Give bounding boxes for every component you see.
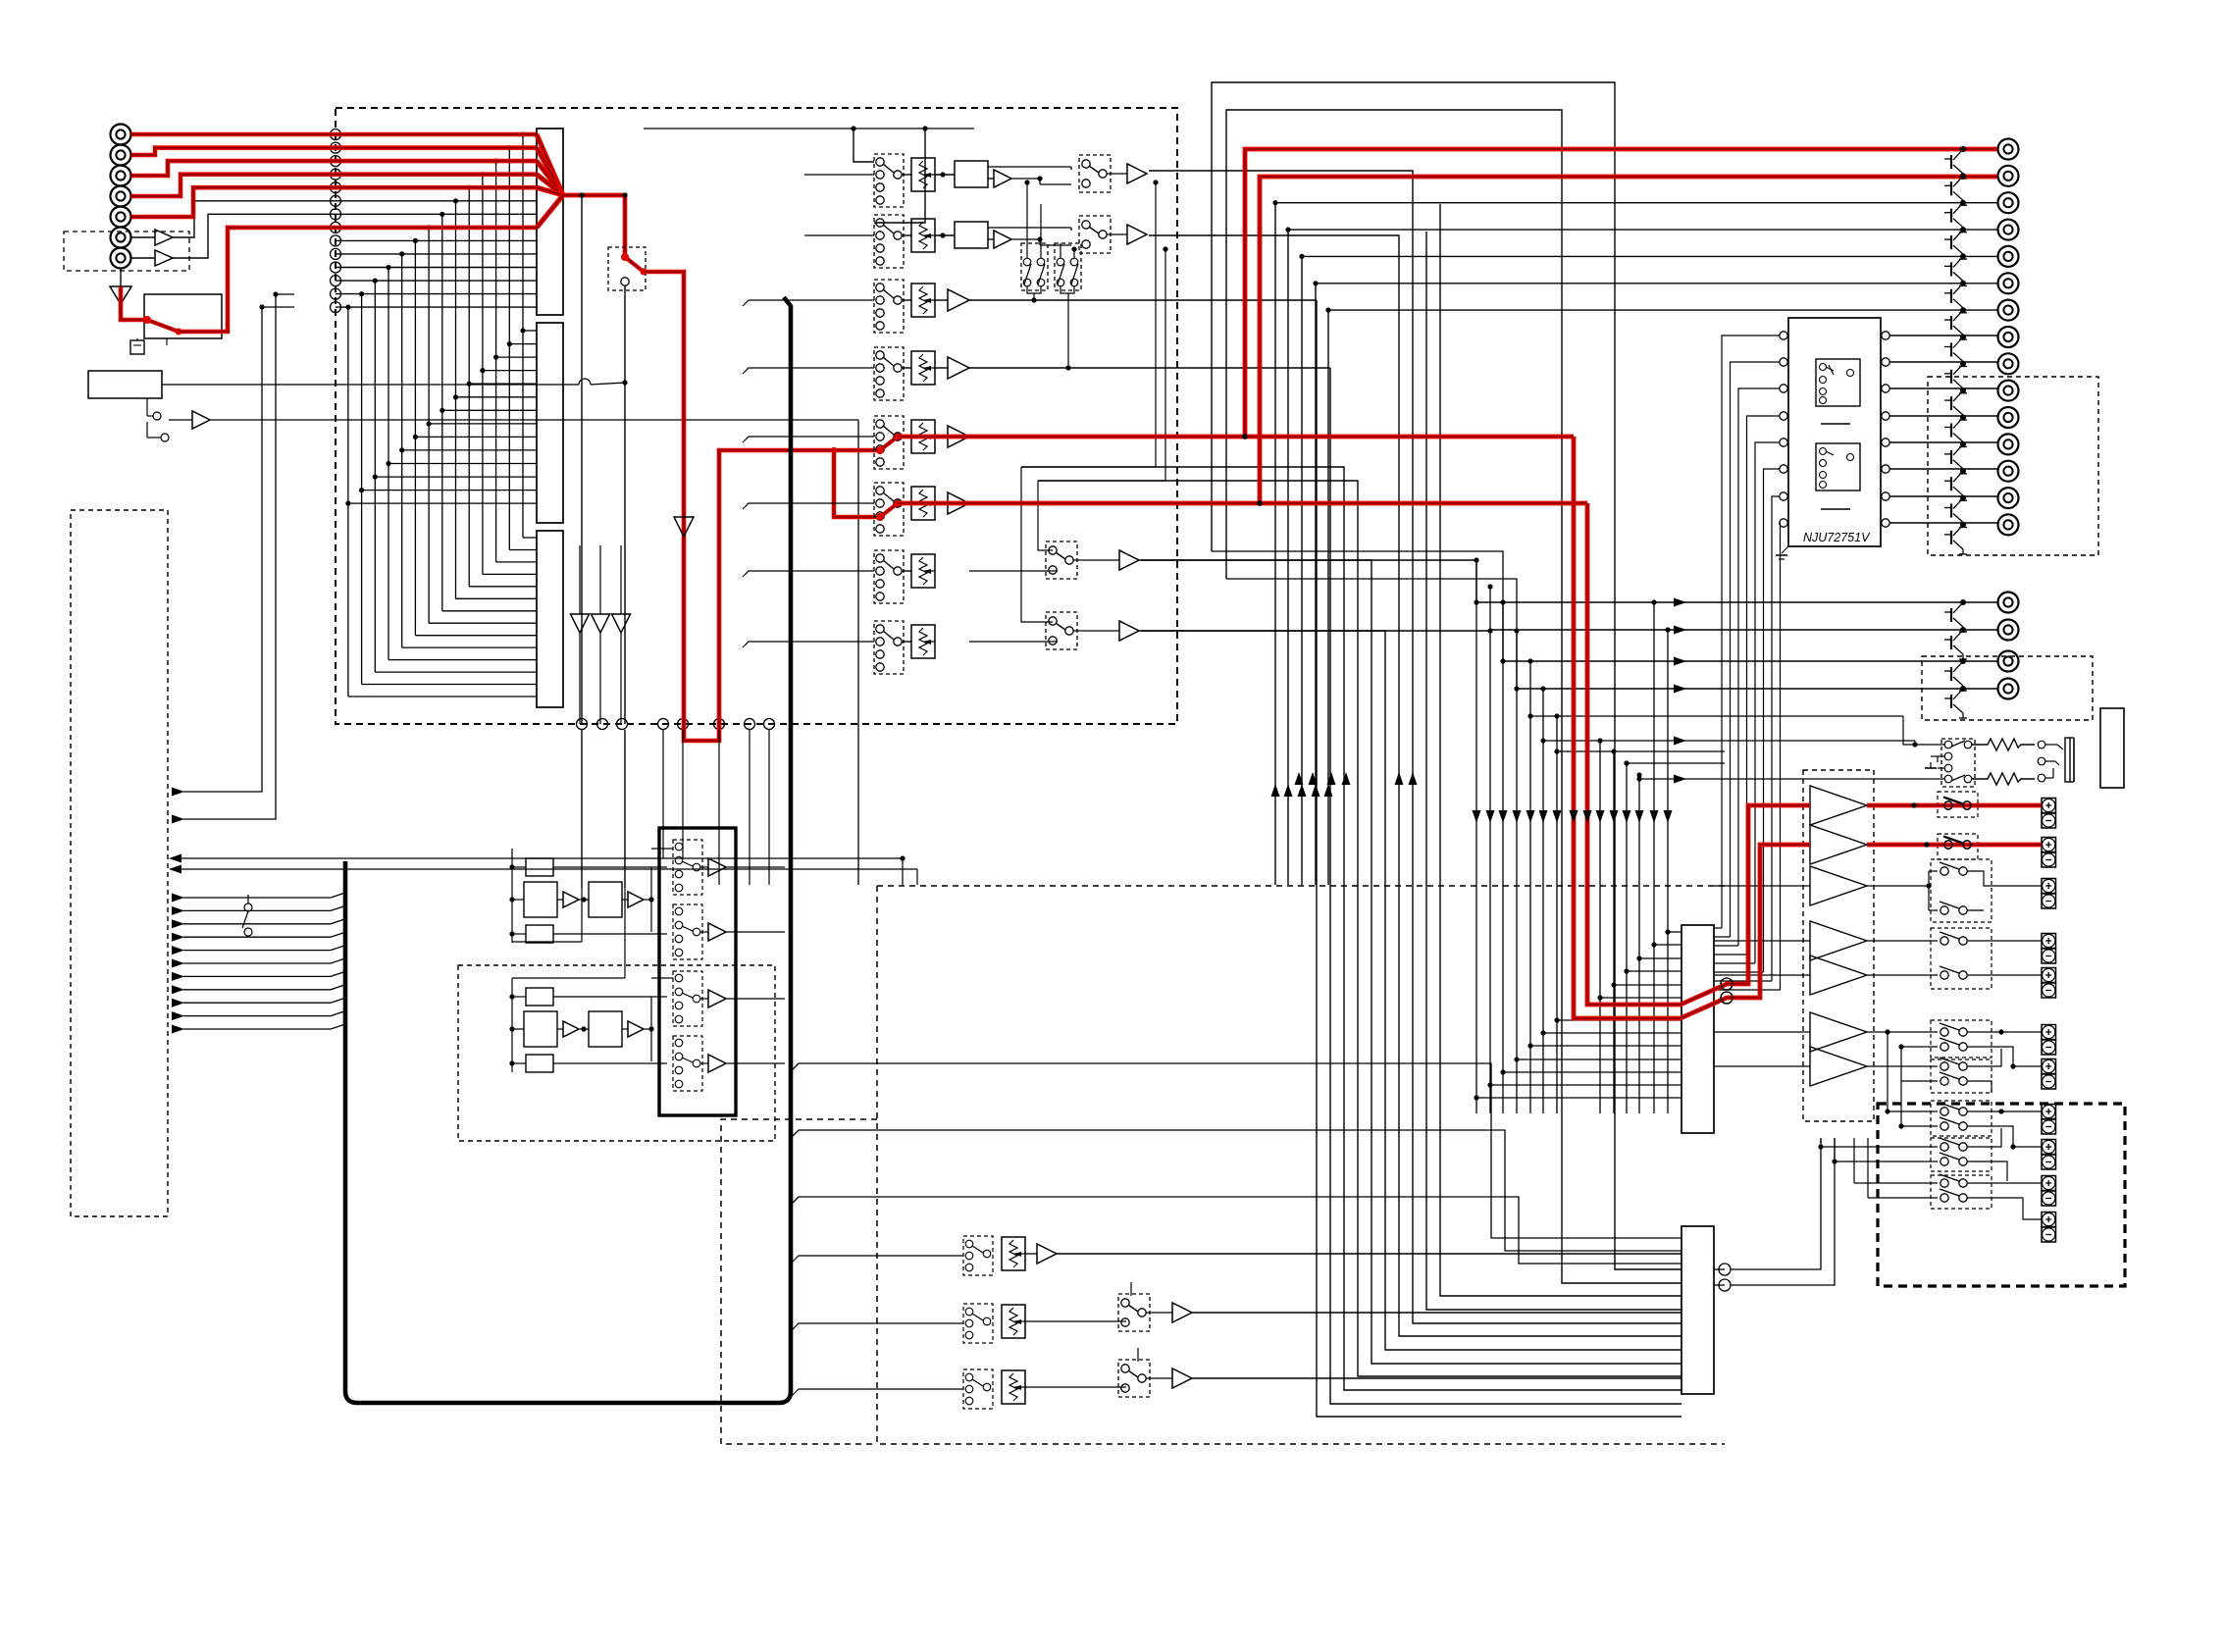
- wire input: [743, 300, 874, 306]
- node row 8: [331, 222, 341, 232]
- RCA input jack J3: [111, 166, 131, 186]
- mute transistor Q9: [1960, 361, 1966, 367]
- wire: [682, 730, 684, 858]
- mute transistor Q11: [1960, 415, 1966, 421]
- node: [714, 719, 725, 730]
- wire power feed 4: [1516, 631, 1518, 1113]
- rec buffer: [708, 858, 726, 876]
- wire NJU feed 6: [1764, 469, 1781, 972]
- phones contact 2: [1944, 752, 1952, 760]
- red wire row3: [131, 161, 538, 176]
- matrix row2-6: [456, 396, 538, 398]
- NJU input pin 8: [1780, 519, 1787, 527]
- wire: [512, 866, 526, 868]
- wire: [902, 436, 911, 438]
- wire power feed 13: [1667, 630, 1669, 1113]
- dashed box tuner inputs: [64, 232, 189, 271]
- wire dsp out 1: [791, 1063, 1682, 1238]
- matrix row3-14: [348, 696, 537, 697]
- power amp A4: [1810, 921, 1867, 960]
- wire: [130, 236, 155, 238]
- arrow: [1674, 685, 1686, 694]
- speaker terminal AMP2 R: [2042, 1213, 2056, 1227]
- wire: [1867, 885, 1929, 887]
- arrow line dsp 6: [172, 959, 184, 968]
- wire: [749, 730, 750, 885]
- wire wrap inner: [1226, 110, 1682, 1283]
- NJU output pin 8: [1882, 519, 1889, 527]
- red wire speaker A: [1867, 803, 2042, 808]
- speaker relay K3: [1931, 859, 1992, 922]
- arrow line dsp 5: [172, 946, 184, 955]
- RCA output jack RJ3: [1998, 192, 2019, 213]
- matrix row2-4: [483, 370, 537, 372]
- speaker relay K7: [1931, 1101, 1992, 1136]
- arrow line dsp 10: [172, 1011, 184, 1020]
- wire: [173, 201, 336, 237]
- arrow: [1674, 626, 1686, 635]
- buffer: [1172, 1303, 1192, 1322]
- phones gnd: [1930, 762, 1932, 768]
- red wire overlay: [1941, 804, 1974, 807]
- wire: [1967, 1049, 2001, 1066]
- red node overlay: [1242, 434, 1248, 439]
- wire out row 7: [1328, 310, 1997, 885]
- wire NJU feed 3: [1738, 388, 1780, 946]
- wire: [131, 187, 336, 217]
- wire: [902, 174, 911, 176]
- input switch S5: [874, 416, 904, 469]
- matrix row3-9: [415, 635, 537, 637]
- arrow up: [1395, 772, 1404, 785]
- node row 2: [331, 142, 341, 153]
- three down triangles: [571, 614, 590, 633]
- red wire overlay spk A: [1867, 803, 2042, 808]
- wire: [1901, 1046, 1938, 1048]
- wire: [902, 570, 911, 572]
- NJU switch cell 2: [1816, 443, 1860, 490]
- RCA input jack J6: [111, 228, 131, 248]
- wire: [902, 234, 911, 236]
- arrow up: [1312, 784, 1320, 797]
- input switch S6: [874, 483, 904, 536]
- power amp A5: [1810, 955, 1867, 995]
- wire: [1967, 1162, 2007, 1181]
- wire: [1731, 1138, 1835, 1285]
- wire NJU feed 8: [1779, 523, 1782, 990]
- red fan segment: [537, 187, 563, 195]
- buffer: [1127, 164, 1147, 183]
- NJU input pin 2: [1780, 358, 1787, 366]
- wire: [1967, 1182, 2042, 1184]
- matrix row3-3: [496, 561, 537, 563]
- arrow down: [1650, 810, 1659, 823]
- matrix row3-2: [509, 549, 537, 551]
- arrow down: [1623, 810, 1631, 823]
- node: [745, 719, 755, 730]
- input switch S4: [874, 347, 904, 400]
- wire: [131, 133, 336, 135]
- speaker terminal AMP2 L: [2042, 1176, 2056, 1191]
- buffer: [563, 892, 579, 907]
- red wire main: [644, 272, 880, 741]
- wire bus 7: [1149, 235, 1682, 1336]
- speaker relay K6: [1931, 1059, 1992, 1093]
- node: [597, 719, 608, 730]
- wire: [935, 299, 948, 301]
- matrix row2-7: [442, 409, 537, 411]
- wire grid row 10: [1627, 970, 1682, 972]
- node row 5: [331, 182, 341, 193]
- red wire row5: [131, 187, 538, 217]
- red switch lever: [625, 257, 644, 272]
- red fan overlay: [537, 134, 563, 195]
- wire out row 3: [1275, 203, 1997, 885]
- mute transistor Q14: [1960, 495, 1966, 501]
- wire grid row 4: [1517, 1058, 1682, 1060]
- wire: [969, 367, 1330, 369]
- red node: [831, 447, 837, 453]
- matrix column 8: [428, 228, 430, 623]
- wire out row 6: [1316, 284, 1997, 885]
- arrow up: [1409, 772, 1418, 785]
- rec switch S1b: [1079, 155, 1111, 192]
- wire NJU feed 5: [1755, 442, 1780, 963]
- AC block: [2100, 708, 2124, 788]
- volume R5: [911, 420, 935, 453]
- wire: [935, 367, 948, 369]
- node: [1911, 802, 1916, 807]
- matrix row2-13: [362, 490, 537, 491]
- buffer: [192, 411, 210, 429]
- wire NJU feed 1: [1722, 336, 1780, 928]
- RCA input jack J2: [111, 145, 131, 166]
- input switch S3: [874, 280, 904, 333]
- speaker terminal CENTER: [2042, 879, 2056, 894]
- matrix row3-6: [456, 597, 538, 599]
- wire power feed 2: [1489, 587, 1491, 1113]
- wire: [902, 641, 911, 643]
- red fan segment: [537, 148, 563, 195]
- wire: [579, 1028, 589, 1030]
- node row 7: [331, 209, 341, 220]
- wire: [1714, 940, 1810, 942]
- mute transistor Q5: [1960, 253, 1966, 259]
- red wire: [563, 193, 625, 198]
- speaker terminal SB L: [2042, 1025, 2056, 1040]
- wire: [1155, 182, 1157, 467]
- wire: [1107, 233, 1127, 235]
- red wire to amp B: [1587, 503, 1810, 1005]
- NJU input pin 6: [1780, 465, 1787, 473]
- red node: [1257, 500, 1263, 506]
- RCA output jack RJ7: [1998, 300, 2019, 321]
- wire input: [791, 1389, 963, 1397]
- red row6 through: [898, 501, 1587, 506]
- mute transistor Q15: [1960, 522, 1966, 528]
- wire: [700, 866, 708, 868]
- buffer: [948, 492, 969, 514]
- dashed box front panel: [71, 510, 168, 1216]
- speaker terminal SB R: [2042, 1059, 2056, 1074]
- bus row 13: [336, 293, 537, 295]
- tuner block: [88, 371, 162, 398]
- arrow: [1674, 737, 1686, 746]
- matrix row2-5: [469, 383, 537, 385]
- wire: [624, 888, 626, 978]
- selector block A1: [537, 129, 563, 315]
- node row 12: [331, 276, 341, 286]
- red wire input select: [121, 286, 147, 320]
- wire tuner out: [162, 384, 579, 386]
- speaker relay K4: [1931, 928, 1992, 989]
- red arrow down overlay: [1570, 810, 1578, 823]
- volume R1: [911, 158, 935, 191]
- bus row 5: [336, 186, 537, 188]
- wire: [1714, 885, 1810, 887]
- wire bus 10: [1440, 204, 1682, 1296]
- bus row 9: [336, 239, 537, 241]
- wire: [1192, 1312, 1682, 1314]
- rec switch S10: [673, 840, 702, 895]
- NJU divider: [1821, 423, 1850, 425]
- matrix row3-4: [483, 573, 537, 575]
- phones contact 3: [1944, 775, 1952, 783]
- matrix row3-8: [429, 622, 537, 624]
- wire: [624, 730, 626, 888]
- wire: [1714, 1031, 1810, 1033]
- bus row 12: [336, 280, 537, 282]
- wire: [700, 998, 708, 1000]
- wire: [644, 899, 651, 901]
- wire: [1929, 778, 1944, 780]
- buffer: [1119, 550, 1139, 570]
- matrix column 13: [361, 294, 363, 685]
- rec switch S12: [673, 971, 702, 1026]
- phones contact 1: [1944, 741, 1952, 749]
- wire bus 3: [1021, 467, 1682, 1390]
- wire: [988, 238, 994, 240]
- wire: [120, 268, 122, 286]
- arrow up: [1284, 784, 1293, 797]
- bus row 3: [336, 160, 537, 162]
- node: [658, 719, 669, 730]
- buffer: [994, 170, 1011, 187]
- input switch S7: [874, 550, 904, 603]
- wire: [768, 730, 770, 885]
- filter block U2: [955, 222, 988, 248]
- red wire: [623, 195, 628, 257]
- mute transistor Q13: [1960, 468, 1966, 474]
- wire phones L: [1530, 715, 1903, 717]
- node row 10: [331, 248, 341, 259]
- dashed box rec section: [458, 965, 775, 1141]
- NJU output pin 3: [1882, 385, 1889, 392]
- input switch S1: [874, 154, 904, 207]
- wire: [1025, 1253, 1037, 1255]
- matrix row2-1: [523, 330, 537, 332]
- matrix column 11: [388, 268, 389, 660]
- red wire speaker B: [1867, 843, 2042, 848]
- wire input: [791, 1323, 963, 1331]
- wire aux feed: [1557, 750, 1725, 752]
- matrix row3-11: [388, 659, 537, 661]
- node row 11: [331, 262, 341, 273]
- mute transistor Q10: [1960, 387, 1966, 393]
- wire: [1061, 286, 1074, 293]
- matrix column 4: [482, 175, 484, 575]
- wire power feed 11: [1638, 775, 1640, 1113]
- wire: [988, 166, 1071, 168]
- wire vert: [511, 978, 513, 1072]
- wire: [651, 977, 673, 979]
- matrix row3-12: [375, 671, 537, 673]
- input switch S9: [963, 1236, 993, 1275]
- node: [1719, 1264, 1731, 1275]
- arrow line play L: [169, 854, 181, 863]
- matrix column 12: [374, 281, 376, 672]
- NJU output pin 4: [1882, 412, 1889, 420]
- wire bus 5: [1139, 560, 1682, 1364]
- dashed box power amp: [1803, 770, 1874, 1121]
- wire: [1928, 871, 1930, 910]
- relay pair box A: [1021, 243, 1048, 290]
- red wire L out: [1260, 177, 1997, 503]
- rec block outline: [659, 828, 736, 1115]
- wire: [1867, 1065, 1884, 1067]
- wire zone out R: [1226, 579, 1517, 689]
- wire: [1192, 1377, 1682, 1379]
- wire grid row 13: [1668, 931, 1682, 933]
- arrow down: [1473, 810, 1481, 823]
- volume R10: [1002, 1305, 1025, 1338]
- arrow up: [1342, 772, 1351, 785]
- selector block A2: [537, 323, 563, 523]
- wire: [1868, 1197, 1938, 1199]
- wire: [804, 174, 874, 176]
- wire bus 1: [1317, 300, 1682, 1417]
- selector block A3: [537, 531, 563, 707]
- red wire overlay amp B: [1587, 503, 1810, 1005]
- wire bus 6: [1139, 631, 1682, 1350]
- relay box: [144, 294, 222, 338]
- wire: [1867, 1031, 1938, 1033]
- arrow up: [1271, 784, 1280, 797]
- red node: [1721, 978, 1733, 990]
- wire: [1900, 1081, 1902, 1126]
- wire: [1967, 1047, 2042, 1066]
- buffer: [1119, 621, 1139, 641]
- NJU output pin 1: [1882, 332, 1889, 339]
- wire: [1967, 1031, 2042, 1033]
- arrow: [1674, 657, 1686, 666]
- wire grid row 11: [1639, 957, 1682, 959]
- matrix row2-2: [509, 343, 537, 345]
- RCA output jack RJ14: [1998, 488, 2019, 508]
- rec switch S11: [673, 904, 702, 959]
- arrow up: [1327, 772, 1336, 785]
- arrow line dsp 7: [172, 972, 184, 981]
- matrix row2-11: [388, 463, 537, 465]
- speaker relay K2: [1938, 834, 1978, 859]
- wire: [700, 1062, 708, 1064]
- arrow down: [1539, 810, 1548, 823]
- buffer: [563, 1021, 579, 1037]
- speaker terminal SURR R: [2042, 968, 2056, 983]
- wire wrap outer: [1212, 82, 1682, 1269]
- bus row 8: [336, 227, 537, 229]
- matrix column 9: [414, 240, 416, 635]
- wire grid row 3: [1503, 1071, 1682, 1073]
- red fan segment: [537, 195, 563, 228]
- mute transistor Q3: [1960, 200, 1966, 206]
- wire power feed 7: [1556, 716, 1558, 1113]
- eq block small: [526, 988, 553, 1006]
- wire grid row 9: [1614, 984, 1682, 986]
- RCA output jack RJ12: [1998, 434, 2019, 454]
- wire: [902, 367, 911, 369]
- arrow down: [1610, 810, 1619, 823]
- node: [678, 719, 689, 730]
- wire: [1967, 1126, 2042, 1147]
- arrow down: [1596, 810, 1605, 823]
- rec buffer: [708, 1055, 726, 1072]
- red fan segment: [537, 134, 563, 195]
- driver block 2: [1682, 1226, 1714, 1394]
- filter block: [589, 1011, 622, 1047]
- wire: [1854, 1182, 1938, 1184]
- red row5 lever: [880, 437, 898, 450]
- wire: [1011, 178, 1040, 180]
- wire: [857, 420, 859, 885]
- buffer: [1037, 1244, 1057, 1264]
- driver block 1: [1682, 925, 1714, 1133]
- wire: [1714, 1065, 1810, 1067]
- RCA jack pair sub: [1998, 593, 2019, 613]
- wire: [988, 178, 994, 180]
- matrix row2-9: [415, 436, 537, 438]
- relay coil: [130, 340, 144, 354]
- aux jack contacts: [153, 412, 161, 420]
- DSP chip outline: [345, 297, 791, 1403]
- matrix row2-12: [375, 476, 537, 478]
- wire: [874, 129, 925, 223]
- red wire overlay fan out: [563, 193, 625, 198]
- volume R4: [911, 351, 935, 385]
- red wire row4: [131, 175, 538, 196]
- wire grid row 12: [1654, 944, 1682, 946]
- RCA output jack RJ6: [1998, 273, 2019, 293]
- input switch S8: [874, 621, 904, 674]
- bus row 7: [336, 213, 537, 215]
- matrix column 10: [401, 254, 403, 647]
- wire bus 4: [1038, 481, 1682, 1376]
- relay pair box B: [1055, 243, 1081, 290]
- volume R8: [911, 625, 935, 658]
- dashed box input section: [336, 108, 1177, 724]
- wire: [579, 545, 581, 614]
- wire: [579, 899, 589, 901]
- power amp A3: [1810, 866, 1867, 905]
- buffer: [628, 892, 644, 907]
- rec switch S11b: [1118, 1360, 1150, 1397]
- wire: [553, 996, 667, 998]
- matrix column 7: [441, 214, 443, 611]
- wire phones R: [1543, 740, 1915, 742]
- red fan segment: [537, 161, 563, 195]
- matrix row3-10: [402, 646, 537, 648]
- wire power feed 3: [1502, 602, 1504, 1113]
